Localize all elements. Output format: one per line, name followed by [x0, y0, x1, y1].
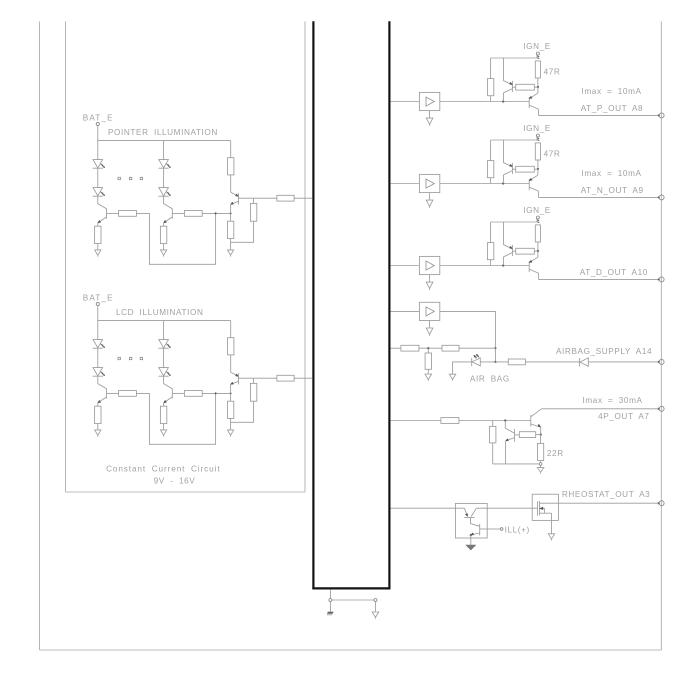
wire buffer to base node stage AT_P [440, 101, 529, 103]
resistor airbag series R3 [508, 359, 525, 365]
node 22R ground [539, 463, 542, 466]
wire driver base out lcd illumination [238, 377, 277, 379]
wire rail to LED string pointer illumination column 1 [97, 141, 99, 160]
wire rail to LED string lcd illumination column 1 [97, 321, 99, 340]
wire bus to buffer stage AT_N [391, 183, 420, 185]
wire buffer ground stub stage AT_N [429, 193, 431, 201]
inner block border right [304, 22, 306, 493]
svg-text:AT_P_OUT A8: AT_P_OUT A8 [581, 104, 644, 113]
ground lcd illumination column 2 [161, 430, 167, 437]
box rheostat mosfet [532, 494, 558, 520]
label Imax stage AT_N [582, 169, 642, 178]
resistor 22R [538, 443, 544, 460]
page frame bottom border [40, 649, 662, 651]
label AT_P_OUT A8 stage AT_P [581, 104, 644, 113]
svg-text:Imax = 30mA: Imax = 30mA [583, 396, 643, 405]
wire output stage AT_N [539, 196, 660, 198]
wire rail to pullup stage AT_N [490, 140, 492, 161]
ground shunt resistor [425, 374, 432, 381]
svg-text:9V - 16V: 9V - 16V [154, 476, 196, 485]
ground earth under bus [372, 612, 379, 619]
resistor shunt to ground [425, 353, 431, 369]
wire sense base right 4P [536, 434, 541, 436]
svg-text:47R: 47R [544, 67, 561, 76]
transistor Q pointer illumination column 1 [98, 209, 119, 223]
wire sense node to output emitter stage AT_D [537, 251, 539, 257]
junction sense node stage AT_N [537, 168, 539, 170]
wire buffer to base node stage AT_N [440, 183, 529, 185]
wire base divider lcd illumination [253, 378, 255, 383]
LED D2 lcd illumination column 1 [93, 368, 105, 377]
svg-text:BAT_E: BAT_E [83, 113, 114, 122]
junction ill emitter [470, 534, 472, 536]
wire divider to emitter node lcd illumination [231, 401, 254, 422]
ground ill block solid [466, 545, 476, 550]
terminal AIRBAG_SUPPLY A14 [658, 359, 664, 364]
wire bus to buffer stage AT_P [391, 101, 420, 103]
buffer amplifier airbag drive [419, 302, 439, 320]
svg-text:22R: 22R [547, 449, 564, 458]
page frame left border [39, 22, 41, 651]
ground 22R [537, 465, 544, 473]
junction base drive stage AT_P [502, 100, 504, 102]
wire rail to LED string pointer illumination column 2 [163, 141, 165, 160]
wire sense base right stage AT_P [534, 86, 538, 88]
junction emitter node 4P [540, 434, 542, 436]
junction sense node stage AT_P [537, 86, 539, 88]
transistor output Q stage AT_N [529, 175, 538, 197]
node BAT_E supply lcd illumination [96, 302, 99, 305]
terminal 4P_OUT A7 [658, 406, 664, 411]
wire between LEDs pointer illumination column 1 [97, 169, 99, 188]
resistor emitter pointer illumination column 1 [95, 226, 101, 243]
wire rail to pullup stage AT_P [490, 58, 492, 79]
junction col2 base tee pointer illumination [215, 212, 217, 214]
wire col2 base to driver pointer illumination [202, 212, 230, 214]
ellipsis dots lcd illumination [118, 357, 143, 359]
diode airbag supply [580, 358, 589, 367]
wire right stub to earth ground [375, 602, 377, 612]
wire driver emitter down pointer illumination [230, 204, 232, 221]
wire rail to sense emitter stage AT_D [503, 222, 505, 245]
label AT_N_OUT A9 stage AT_N [581, 186, 644, 195]
resistor divider pointer illumination [250, 203, 256, 221]
wire top rail lcd illumination [98, 320, 231, 322]
junction base drive stage AT_N [502, 182, 504, 184]
wire bus to ill transistor [391, 507, 465, 509]
label 47R stage AT_N [544, 149, 561, 158]
label RHEOSTAT_OUT A3 [562, 490, 650, 499]
junction base drive stage AT_D [502, 264, 504, 266]
wire sense node to output emitter stage AT_P [537, 87, 539, 93]
buffer amplifier stage AT_N [419, 174, 439, 192]
wire sense node to output emitter stage AT_N [537, 169, 539, 175]
resistor base 4P [441, 418, 459, 424]
wire buffer to base node stage AT_D [440, 265, 529, 267]
label BAT_E pointer illumination [83, 113, 114, 122]
resistor output lcd illumination [277, 375, 294, 381]
label constant current circuit [106, 464, 220, 473]
svg-text:RHEOSTAT_OUT A3: RHEOSTAT_OUT A3 [562, 490, 650, 499]
inner block border bottom [66, 491, 306, 493]
resistor sense base stage AT_P [516, 84, 535, 90]
resistor sense base stage AT_D [516, 248, 535, 254]
transistor Q pointer illumination column 2 [164, 209, 185, 223]
wire rail down to resistor pointer illumination [230, 141, 232, 158]
label AT_D_OUT A10 stage AT_D [580, 268, 648, 277]
wire output to bus lcd illumination [294, 377, 312, 379]
transistor ill lower NPN [471, 518, 488, 536]
wire shunt resistor to ground [427, 369, 429, 374]
node ILL(+) [500, 528, 503, 531]
wire bus to buffer airbag [391, 310, 420, 312]
junction pullup base drive stage AT_P [0, 0, 1, 1]
transistor current sense Q stage AT_P [503, 81, 512, 102]
wire rheostat output [558, 502, 659, 504]
wire resistor to driver pointer illumination [230, 175, 232, 192]
ground buffer airbag drive [426, 328, 433, 336]
junction driver emitter pointer illumination [230, 212, 232, 214]
inner block border left [65, 22, 67, 493]
ground pointer illumination column 1 [95, 250, 101, 257]
wire left resistor down 4P [492, 443, 494, 464]
resistor collector lcd illumination [228, 338, 234, 355]
resistor sense base stage AT_N [516, 166, 535, 172]
label 22R [547, 449, 564, 458]
label voltage range [154, 476, 196, 485]
wire emitter resistor to ground lcd illumination [230, 418, 232, 430]
junction base drive 4P [504, 419, 506, 421]
wire 22R to ground node [540, 461, 542, 463]
wire ill collector segment [476, 507, 532, 509]
wire driver emitter down lcd illumination [230, 384, 232, 401]
wire 47R to sense node stage AT_N [537, 160, 539, 169]
wire sense base right stage AT_N [534, 168, 538, 170]
mosfet rheostat [532, 501, 558, 516]
wire airbag led ground stub [453, 362, 472, 374]
wire R3 to diode [525, 361, 579, 363]
label IGN_E stage AT_N [523, 124, 551, 133]
label Imax 4P [583, 396, 643, 405]
resistor 47R stage AT_P [535, 61, 540, 78]
wire output 4P [542, 408, 660, 410]
wire R2 to junction [459, 347, 495, 349]
svg-text:BAT_E: BAT_E [83, 293, 114, 302]
wire sense base left stage AT_N [512, 168, 515, 170]
svg-text:47R: 47R [544, 149, 561, 158]
resistor pull-up stage AT_P [487, 79, 493, 96]
resistor output pointer illumination [277, 195, 294, 201]
wire buffer ground stub stage AT_D [429, 275, 431, 283]
wire supply rail stage AT_P [491, 57, 538, 59]
label Imax stage AT_P [582, 87, 642, 96]
buffer amplifier stage AT_P [419, 92, 439, 110]
wire bus to R 4P [391, 420, 441, 422]
wire R1 to R2 [419, 347, 442, 349]
ground airbag led [449, 374, 455, 381]
box ill detector [455, 503, 487, 538]
junction sense node stage AT_D [537, 250, 539, 252]
wire sense base right stage AT_D [534, 250, 538, 252]
connector bus bottom bar [312, 587, 390, 589]
svg-text:AIR BAG: AIR BAG [470, 374, 510, 383]
wire sense base left stage AT_D [512, 250, 515, 252]
ground buffer stage AT_D [426, 282, 433, 290]
wire emitter pointer illumination column 2 [163, 223, 165, 226]
wire emitter pointer illumination column 1 [97, 223, 99, 226]
wire output to bus pointer illumination [294, 197, 312, 199]
svg-text:IGN_E: IGN_E [523, 206, 551, 215]
wire sense base left 4P [515, 434, 520, 436]
terminal AT_P_OUT A8 stage AT_P [658, 113, 664, 118]
terminal AT_N_OUT A9 stage AT_N [658, 195, 664, 200]
label 47R stage AT_P [544, 67, 561, 76]
wire diode to terminal [588, 361, 659, 363]
wire sense base left stage AT_P [512, 86, 515, 88]
resistor emitter lcd illumination column 2 [160, 406, 166, 423]
svg-text:Imax = 10mA: Imax = 10mA [582, 87, 642, 96]
svg-text:IGN_E: IGN_E [523, 124, 551, 133]
resistor base lcd illumination column 2 [184, 391, 202, 397]
label title pointer illumination [108, 128, 218, 137]
wire between LEDs pointer illumination column 2 [163, 169, 165, 188]
wire sense emitter down 4P [505, 441, 507, 464]
wire output stage AT_P [539, 114, 660, 116]
transistor current sense Q stage AT_N [503, 163, 512, 184]
wire to ground pointer illumination column 2 [163, 244, 165, 250]
svg-text:AT_N_OUT A9: AT_N_OUT A9 [581, 186, 644, 195]
wire supply rail stage AT_N [491, 139, 538, 141]
svg-text:ILL(+): ILL(+) [505, 525, 530, 534]
label IGN_E stage AT_P [523, 42, 551, 51]
wire emitter resistor to ground pointer illumination [230, 238, 232, 250]
LED D3 pointer illumination column 2 [159, 160, 171, 169]
node IGN_E supply stage AT_D [536, 216, 539, 223]
junction pullup base drive stage AT_D [0, 0, 1, 1]
resistor row R2 [442, 345, 459, 351]
wire ill base out [487, 528, 500, 530]
svg-text:POINTER ILLUMINATION: POINTER ILLUMINATION [108, 128, 218, 137]
wire sense collector up 4P [504, 421, 506, 429]
resistor emitter driver lcd illumination [227, 401, 233, 418]
wire col2 base to driver lcd illumination [202, 392, 230, 394]
resistor base lcd illumination column 1 [119, 391, 137, 397]
wire to ground pointer illumination column 1 [97, 244, 99, 250]
wire left stub to chassis ground [329, 602, 331, 612]
LED D4 pointer illumination column 2 [159, 188, 171, 197]
label BAT_E lcd illumination [83, 293, 114, 302]
ground pointer illumination column 2 [161, 250, 167, 257]
wire base divider pointer illumination [253, 198, 255, 203]
resistor left 4P [490, 426, 496, 443]
wire base bus U lcd illumination [137, 393, 216, 444]
node IGN_E supply stage AT_P [536, 52, 539, 59]
resistor base pointer illumination column 2 [184, 211, 202, 217]
resistor pull-up stage AT_N [487, 161, 493, 178]
transistor Q lcd illumination column 1 [98, 389, 119, 403]
connector bus left bar [312, 21, 314, 588]
node bus ground left [329, 599, 332, 602]
ground buffer stage AT_P [426, 118, 433, 126]
resistor divider lcd illumination [250, 383, 256, 401]
resistor sense base 4P [519, 432, 535, 438]
terminal AT_D_OUT A10 stage AT_D [658, 277, 664, 282]
wire supply rail stage AT_D [491, 221, 538, 223]
svg-text:Imax = 10mA: Imax = 10mA [582, 169, 642, 178]
transistor driver Q pointer illumination [231, 192, 239, 204]
junction col2 base tee lcd illumination [215, 392, 217, 394]
ellipsis dots pointer illumination [118, 177, 143, 179]
wire base to left resistor 4P [492, 421, 494, 427]
wire BAT_E to rail pointer illumination [97, 126, 99, 141]
wire 47R to sense node stage AT_P [537, 78, 539, 87]
junction pullup base drive stage AT_N [0, 0, 1, 1]
transistor output Q stage AT_P [529, 93, 538, 115]
resistor collector pointer illumination [228, 158, 234, 175]
wire pullup to base drive stage AT_N [490, 178, 492, 184]
wire rail to sense emitter stage AT_P [503, 58, 505, 81]
ground buffer stage AT_N [426, 200, 433, 208]
svg-text:AIRBAG_SUPPLY A14: AIRBAG_SUPPLY A14 [556, 347, 652, 356]
wire resistor to driver lcd illumination [230, 355, 232, 372]
transistor output Q stage AT_D [529, 257, 538, 279]
wire between LEDs lcd illumination column 1 [97, 349, 99, 368]
wire rail to pullup stage AT_D [490, 222, 492, 243]
wire BAT_E to rail lcd illumination [97, 306, 99, 321]
wire to ground lcd illumination column 2 [163, 424, 165, 430]
resistor emitter lcd illumination column 1 [95, 406, 101, 423]
wire led row to R3 [480, 361, 508, 363]
wire pullup to base drive stage AT_P [490, 96, 492, 102]
transistor ill top PNP [464, 508, 476, 517]
resistor pull-up stage AT_D [487, 243, 493, 260]
wire buffer ground stub airbag drive [429, 321, 431, 329]
ground rheostat [548, 534, 554, 541]
svg-text:Constant Current Circuit: Constant Current Circuit [106, 464, 220, 473]
wire tee down to shunt resistor [427, 348, 429, 353]
resistor 47R stage AT_N [535, 143, 540, 160]
wire top rail pointer illumination [98, 140, 231, 142]
label title lcd illumination [116, 308, 203, 317]
wire emitter lcd illumination column 1 [97, 403, 99, 406]
wire pullup to base drive stage AT_D [490, 260, 492, 266]
svg-text:IGN_E: IGN_E [523, 42, 551, 51]
transistor driver Q lcd illumination [231, 372, 239, 384]
resistor emitter driver pointer illumination [227, 221, 233, 238]
wire bus bottom left stub [329, 590, 331, 599]
node IGN_E supply stage AT_N [536, 134, 539, 141]
wire buffer ground stub stage AT_P [429, 111, 431, 119]
transistor Q lcd illumination column 2 [164, 389, 185, 403]
wire R to base node 4P [459, 420, 531, 422]
wire junction down to led row [494, 348, 496, 362]
node BAT_E supply pointer illumination [96, 122, 99, 125]
label IGN_E stage AT_D [523, 206, 551, 215]
svg-text:4P_OUT A7: 4P_OUT A7 [598, 412, 649, 421]
wire LED to transistor lcd illumination column 2 [164, 377, 173, 389]
wire buffer airbag to junction [440, 311, 496, 348]
wire emitter lcd illumination column 2 [163, 403, 165, 406]
label 4P_OUT A7 [598, 412, 649, 421]
LED D1 pointer illumination column 1 [93, 160, 105, 169]
wire output stage AT_D [539, 278, 660, 280]
wire rail down to resistor lcd illumination [230, 321, 232, 338]
wire base bus U pointer illumination [137, 213, 216, 264]
LED D1 lcd illumination column 1 [93, 340, 105, 349]
LED D3 lcd illumination column 2 [159, 340, 171, 349]
svg-text:LCD ILLUMINATION: LCD ILLUMINATION [116, 308, 203, 317]
wire between ground nodes [332, 599, 374, 601]
wire mosfet source down [551, 513, 553, 534]
ground driver lcd illumination [228, 430, 234, 437]
label ILL(+) [505, 525, 530, 534]
wire LED to transistor pointer illumination column 2 [164, 197, 173, 209]
page frame right border [660, 22, 662, 651]
LED air bag indicator [472, 354, 481, 366]
junction R row tee [427, 347, 429, 349]
LED D4 lcd illumination column 2 [159, 368, 171, 377]
wire between LEDs lcd illumination column 2 [163, 349, 165, 368]
wire to ground lcd illumination column 1 [97, 424, 99, 430]
ground lcd illumination column 1 [95, 430, 101, 437]
wire bus to R row [391, 347, 401, 349]
resistor row R1 [401, 345, 419, 351]
ground driver pointer illumination [228, 250, 234, 257]
wire bottom link 4P [493, 463, 540, 465]
label AIR BAG [470, 374, 510, 383]
wire rail to sense emitter stage AT_N [503, 140, 505, 163]
svg-text:AT_D_OUT A10: AT_D_OUT A10 [580, 268, 648, 277]
node bus ground right [374, 599, 377, 602]
connector bus right bar [388, 21, 390, 588]
terminal RHEOSTAT_OUT A3 [658, 501, 664, 506]
LED D2 pointer illumination column 1 [93, 188, 105, 197]
resistor 47R stage AT_D [535, 225, 540, 242]
junction airbag resistor row [494, 347, 496, 349]
resistor emitter pointer illumination column 2 [160, 226, 166, 243]
chassis ground under bus [327, 612, 333, 615]
wire LED to transistor pointer illumination column 1 [98, 197, 107, 209]
transistor current sense 4P [505, 428, 514, 442]
transistor current sense Q stage AT_D [503, 245, 512, 266]
wire bus to buffer stage AT_D [391, 265, 420, 267]
junction driver emitter lcd illumination [230, 392, 232, 394]
wire LED to transistor lcd illumination column 1 [98, 377, 107, 389]
wire emitter node to 22R [540, 435, 542, 444]
transistor output NPN 4P [531, 409, 542, 435]
resistor base pointer illumination column 1 [119, 211, 137, 217]
buffer amplifier stage AT_D [419, 256, 439, 274]
wire divider to emitter node pointer illumination [231, 221, 254, 242]
wire ill emitter to ground [470, 535, 472, 545]
wire rail to LED string lcd illumination column 2 [163, 321, 165, 340]
wire 47R to sense node stage AT_D [537, 242, 539, 251]
junction airbag led row [494, 361, 496, 363]
label AIRBAG_SUPPLY A14 [556, 347, 652, 356]
wire driver base out pointer illumination [238, 197, 277, 199]
